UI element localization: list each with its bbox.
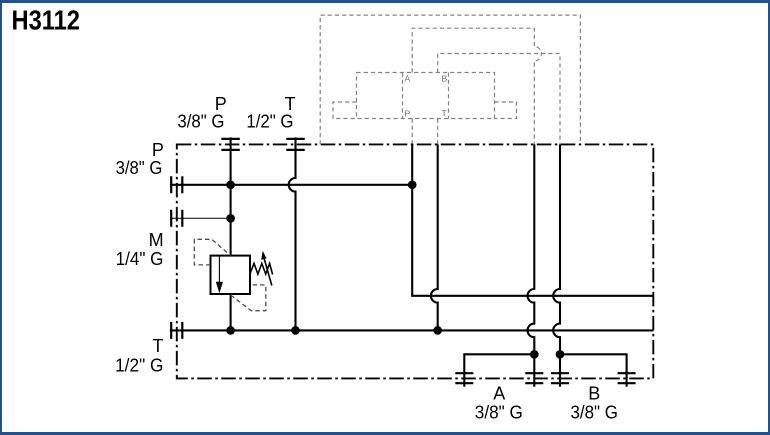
port A1 bottom symbol [455,373,473,383]
svg-text:1/2" G: 1/2" G [246,112,293,132]
junction M line [226,214,235,223]
wire valve T drop [437,119,439,145]
svg-text:1/4" G: 1/4" G [116,249,164,269]
port B1 bottom symbol [551,373,569,383]
junction valve T / T rail [433,326,442,335]
wire valve B to manifold [438,54,560,145]
manifold boundary [177,144,654,378]
valve U1 envelope divider right [448,73,450,119]
wire T rail [170,329,653,331]
valve actuator box right [495,102,517,119]
junction B branch [556,350,565,359]
port T top symbol [286,139,304,150]
relief valve RV1 flow arrow [218,256,220,283]
wire B branch to right port [560,354,627,387]
svg-text:M: M [149,230,164,250]
wire P rail [170,184,412,186]
port P top symbol [221,139,239,150]
relief valve RV1 spring [250,263,272,274]
svg-text:A: A [405,74,411,84]
wire relief outlet to T rail [230,294,232,330]
junction P rail / relief [226,180,235,189]
junction T drop / T rail [291,326,300,335]
svg-text:T: T [442,108,447,118]
wire P top drop [230,137,232,255]
port A2 bottom symbol [525,373,543,383]
relief valve RV1 drain line lower [231,285,266,311]
wire valve T line with hop [431,144,438,330]
relief valve RV1 pilot line upper [194,239,230,265]
valve station outline [320,15,580,144]
valve actuator box left [333,102,357,119]
valve U1 envelope frame [357,73,495,119]
junction P rail / valve P [408,180,417,189]
wire A line [528,144,535,386]
svg-text:T: T [152,336,163,356]
junction relief / T rail [226,326,235,335]
svg-text:H3112: H3112 [12,6,80,36]
svg-text:A: A [493,383,505,403]
relief valve RV1 adjustment arrow [264,259,272,286]
svg-text:3/8" G: 3/8" G [177,112,224,132]
svg-text:3/8" G: 3/8" G [571,402,618,422]
port M left symbol [171,210,182,227]
valve U1 envelope divider left [402,73,404,119]
wire M gauge line [170,217,231,219]
svg-text:B: B [442,74,448,84]
port T left symbol [171,322,182,339]
wire A branch to left port [464,354,534,387]
wire B line [553,144,560,386]
svg-text:3/8" G: 3/8" G [116,158,163,178]
wire valve A to manifold [412,28,541,144]
port P left symbol [171,176,182,193]
relief valve RV1 body [211,256,251,294]
svg-text:3/8" G: 3/8" G [475,402,523,422]
wire valve P drop [411,119,413,145]
svg-text:1/2" G: 1/2" G [115,355,163,375]
port B2 bottom symbol [618,373,636,383]
wire T top drop with hop over P rail [289,137,296,330]
junction A branch [530,350,539,359]
svg-text:P: P [405,109,411,119]
svg-text:B: B [588,383,600,403]
wire valve P line and right run [412,144,653,295]
